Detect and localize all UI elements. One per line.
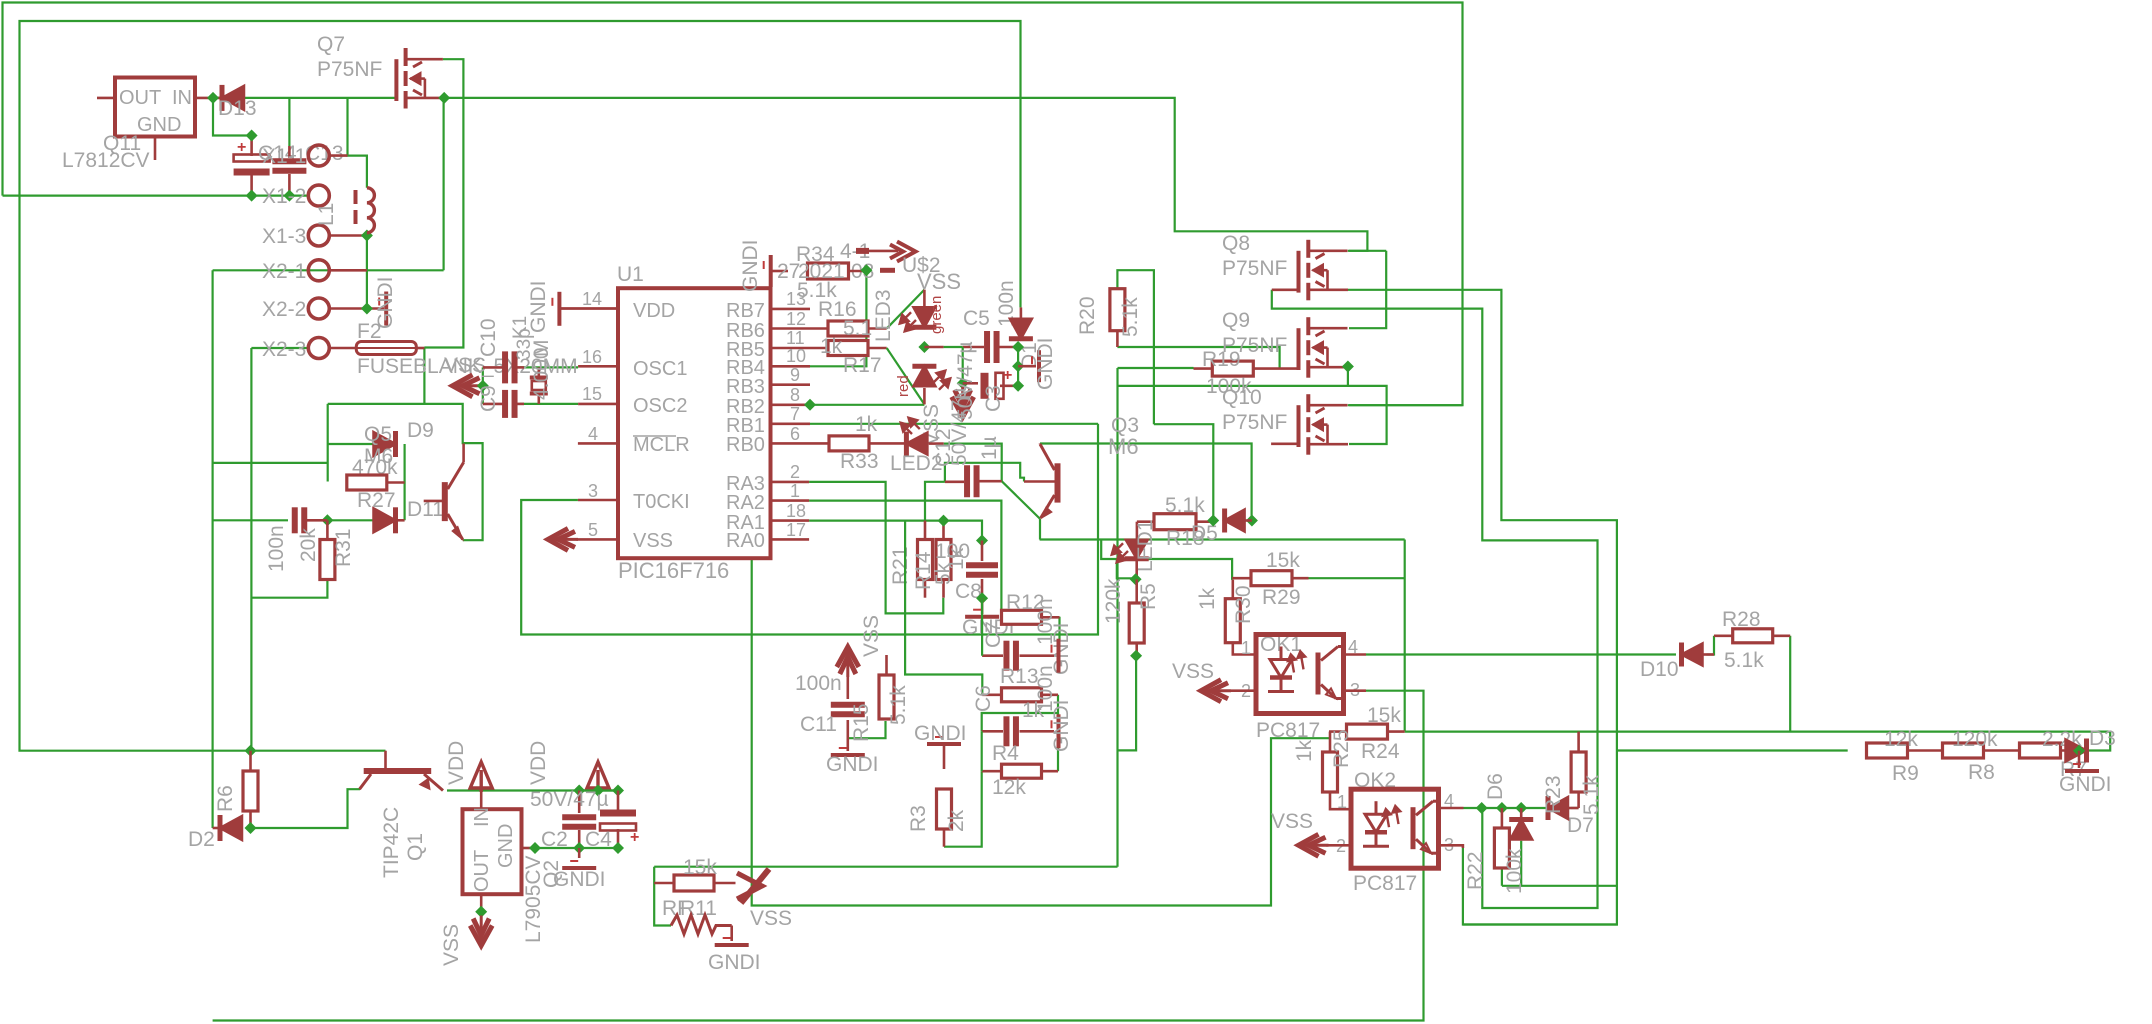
svg-text:+: + (237, 139, 246, 156)
transistor Q9 P75NF (1299, 317, 1349, 378)
wire C4 bottom lead (617, 829, 620, 848)
svg-text:X2-1: X2-1 (262, 260, 306, 283)
ground GNDI below R7 (2065, 769, 2099, 773)
wire R21 bottom lead (924, 579, 927, 598)
wire R27 right lead (387, 481, 405, 484)
svg-text:9: 9 (790, 365, 800, 385)
resistor R7 (2020, 743, 2061, 758)
wire R4 left riser (981, 731, 983, 771)
pin 4 stub (578, 442, 618, 445)
capacitor C7 (1003, 641, 1009, 671)
wire X2-1 lead (329, 269, 367, 272)
wire Q1 emitter to VDD (447, 789, 481, 791)
wire OK1 pin3 lead (1344, 689, 1367, 692)
svg-text:R20: R20 (1076, 296, 1099, 335)
junction D2 R6 (245, 822, 257, 834)
wire D9 left vertical (327, 404, 329, 482)
svg-text:1: 1 (1241, 638, 1251, 658)
wire D7 top lead (1520, 808, 1523, 817)
wire LED1 bottom jog (1117, 559, 1136, 578)
junction GND C4 (612, 842, 624, 854)
wire C12 right lead (980, 480, 1002, 483)
junction Q7 source (438, 92, 450, 104)
wire U1 VDD lead (559, 307, 618, 310)
wire X2-3 to bottom rail (250, 348, 252, 751)
svg-text:1k: 1k (1196, 587, 1219, 610)
resistor R4 (1002, 764, 1042, 778)
wire C13 bottom lead (288, 174, 291, 196)
wire C10 right lead (517, 366, 524, 369)
svg-text:5.1k: 5.1k (1119, 297, 1142, 337)
wire OK1 pin2 lead (1231, 689, 1256, 692)
wire diagonal to Q4 emitter (1002, 481, 1040, 518)
pin 2 stub (771, 481, 810, 484)
svg-text:15k: 15k (1367, 704, 1401, 727)
wire C11 bottom lead (846, 720, 849, 751)
svg-text:R11: R11 (680, 897, 717, 920)
svg-text:GNDI: GNDI (553, 868, 606, 891)
svg-text:VDD: VDD (445, 741, 468, 785)
svg-text:R30: R30 (1232, 585, 1255, 624)
wire X2-2 lead (329, 307, 384, 310)
svg-text:+: + (630, 829, 639, 846)
svg-text:120k: 120k (1952, 728, 1998, 751)
wire C8 top lead (981, 541, 984, 562)
wire OK1 pin4 net to D10 (1366, 653, 1676, 655)
pin 3 stub (578, 499, 618, 502)
svg-text:C4: C4 (585, 828, 612, 851)
svg-text:120k: 120k (1102, 578, 1125, 624)
supply VSS above C11 (837, 647, 859, 677)
wire R28 left lead (1714, 634, 1733, 637)
pin 10 stub (771, 365, 811, 368)
junction VDD C2 (573, 785, 585, 797)
resistor R19 (1212, 361, 1253, 376)
wire RA3 net (809, 482, 943, 614)
wire LED2 to C12 right (944, 444, 1002, 482)
svg-text:18: 18 (786, 501, 806, 521)
resistor R12 (1002, 610, 1042, 624)
svg-text:1k: 1k (1293, 739, 1316, 762)
wire R14 bottom lead (942, 579, 945, 598)
wire Q8-Q9 drain vertical (1349, 251, 1386, 328)
wire C12 left up (945, 463, 1024, 482)
svg-text:GNDI: GNDI (826, 753, 879, 776)
junction OK2 pin4 b (1496, 802, 1508, 814)
capacitor C6 (1003, 716, 1009, 746)
junction D13 anode (207, 92, 219, 104)
wire R4 right lead (1042, 770, 1059, 773)
svg-text:TIP42C: TIP42C (380, 807, 403, 878)
svg-text:50V/47µ: 50V/47µ (948, 387, 971, 466)
junction C14 top (246, 130, 258, 142)
svg-text:1: 1 (790, 481, 800, 501)
svg-text:20k: 20k (297, 528, 320, 562)
wire R19 left lead (1194, 367, 1213, 370)
svg-text:VSS: VSS (633, 530, 673, 552)
svg-text:R5: R5 (1137, 583, 1160, 610)
wire R9 sense line (1617, 749, 1848, 751)
svg-text:X1-1: X1-1 (262, 145, 306, 168)
resistor R29 (1251, 571, 1292, 586)
wire Q11 OUT stub (97, 97, 115, 100)
wire C30 to D11 (213, 519, 288, 521)
wire R5 bottom to Q9 source net (1118, 656, 1137, 751)
wire R31 bottom return (251, 581, 327, 598)
LED LED2 (906, 433, 927, 455)
wire R15 bottom link (847, 721, 886, 738)
svg-text:Q9: Q9 (1222, 309, 1250, 332)
svg-text:2: 2 (790, 462, 800, 482)
capacitor C14 (234, 155, 270, 162)
wire C9 right lead (517, 403, 524, 406)
svg-text:L1: L1 (315, 203, 338, 226)
supply VSS U1 pin5 (548, 528, 578, 550)
svg-text:50V/47µ: 50V/47µ (530, 788, 609, 811)
pin 12 stub (771, 327, 829, 330)
wire Q7 source drop (443, 98, 445, 270)
wire R21 link (925, 482, 945, 521)
potentiometer R11 wiper arrow (737, 869, 769, 903)
svg-text:2k: 2k (945, 809, 968, 832)
junction RA1 R14 (938, 515, 950, 527)
wire OK2 pin4 net (1464, 807, 1547, 809)
wire GND cap rail (535, 847, 618, 849)
wire fuse node down to D9 net (423, 348, 425, 404)
pad X1-3 (308, 225, 329, 246)
wire R19 right lead (1253, 367, 1298, 370)
svg-text:6: 6 (790, 424, 800, 444)
junction LED3 LED5 (918, 341, 930, 353)
svg-text:red: red (895, 375, 912, 397)
wire D9 top net (328, 404, 483, 540)
voltage regulator Q2 L7905CV (463, 809, 522, 894)
svg-text:5: 5 (588, 520, 598, 540)
ground GNDI right of C6 (1057, 714, 1061, 748)
svg-text:P75NF: P75NF (1222, 411, 1287, 434)
junction pin8 (804, 399, 816, 411)
wire OSC1 net (482, 367, 484, 385)
junction OK2 pin4 c (1515, 802, 1527, 814)
wire pot gnd lead (730, 926, 733, 942)
inductor L1 (356, 188, 375, 233)
svg-text:GNDI: GNDI (1034, 338, 1057, 391)
wire R24 left lead (1329, 730, 1347, 733)
resistor R14 (936, 540, 951, 580)
wire R3 bottom net (944, 771, 982, 847)
wire R23 bottom lead (1577, 792, 1580, 808)
diode D7 (1510, 820, 1532, 840)
wire D11 node (307, 519, 375, 521)
capacitor C11 (831, 702, 865, 708)
svg-text:F2: F2 (357, 320, 382, 343)
resistor R33 (829, 436, 869, 451)
wire OSC1 to U1 (520, 366, 578, 368)
fuse F2 (356, 342, 416, 355)
wire R12 right drop to GNDI (1058, 617, 1060, 641)
wire R13 right lead (1042, 693, 1059, 696)
wire R4 left lead (982, 770, 1002, 773)
svg-text:R28: R28 (1722, 608, 1761, 631)
supply VSS OK2 pin2 (1299, 834, 1329, 856)
pin 15 stub (578, 403, 618, 406)
wire D2 left lead (213, 827, 220, 830)
wire X2-1 rail (213, 269, 444, 271)
wire R13 left lead (982, 693, 1001, 696)
wire LED1 top lead (1135, 538, 1138, 541)
svg-text:R25: R25 (1330, 729, 1353, 768)
svg-text:R9: R9 (1892, 762, 1919, 785)
wire R28 right lead (1773, 634, 1791, 637)
ground GNDI below C8 (965, 615, 999, 619)
junction VSS C3 (957, 377, 969, 389)
supply VSS arrow right of R34 (856, 242, 916, 262)
junction R34 (860, 264, 872, 276)
resistor R28 (1733, 629, 1773, 643)
wire D10 anode lead (1703, 653, 1715, 656)
wire C13 top drop (288, 98, 290, 146)
svg-text:1µ: 1µ (978, 436, 1001, 460)
wire R6 top lead (249, 751, 252, 771)
junction R5 bottom (1130, 650, 1142, 662)
svg-text:M: M (530, 340, 553, 358)
wire R28 right drop (1789, 636, 1791, 731)
svg-text:R3: R3 (907, 805, 930, 832)
diode D9 (374, 432, 396, 456)
svg-text:RB0: RB0 (726, 434, 765, 456)
svg-text:RB3: RB3 (726, 376, 765, 398)
wire Q10 drain link (1348, 404, 1463, 406)
wire C8 gnd lead (981, 598, 984, 614)
svg-text:D2: D2 (188, 828, 215, 851)
junction X1-2 C13 (283, 190, 295, 202)
diode D11 (374, 508, 396, 532)
wire OK2 pin3 lead (1439, 845, 1463, 848)
wire R25 bottom lead (1330, 792, 1351, 809)
wire R4 right riser (1057, 713, 1059, 771)
svg-text:Q5: Q5 (364, 423, 392, 446)
svg-text:11: 11 (786, 328, 805, 348)
capacitor C30 (292, 507, 298, 533)
pin 9 stub (771, 383, 811, 386)
wire pot top rail (654, 866, 1117, 868)
wire diagonal R16 to LED3 (887, 290, 925, 329)
resistor R30 (1225, 599, 1240, 643)
wire R29 link (1309, 577, 1405, 579)
svg-text:R23: R23 (1542, 775, 1565, 814)
wire C7 right lead (1020, 654, 1055, 657)
svg-text:R24: R24 (1361, 740, 1400, 763)
junction D1 C5 (1012, 341, 1024, 353)
svg-text:VDD: VDD (527, 741, 550, 785)
wire GND rail to X1-2 (3, 195, 308, 197)
junction X2-2 GNDI (361, 303, 373, 315)
pin 13 stub (771, 308, 811, 311)
wire OSC2 net (482, 386, 484, 404)
wire R5 top lead (1135, 579, 1138, 603)
svg-text:D3: D3 (2089, 727, 2116, 750)
LED LED3 green (913, 307, 935, 327)
svg-text:16: 16 (582, 347, 602, 367)
svg-text:R21: R21 (889, 546, 912, 585)
wire Q11 GND stub (154, 136, 157, 160)
junction D1 GNDI (1012, 360, 1024, 372)
wire C4 top lead (617, 791, 620, 812)
wire R15 top lead (885, 655, 888, 675)
wire RA1 branch to R13 (905, 521, 982, 695)
supply VDD at Q1 (470, 762, 492, 792)
wire M6 gate rail (1154, 424, 1213, 520)
wire LED2 right lead (929, 442, 944, 445)
crystal K1 (530, 367, 548, 404)
wire RA1 net (809, 521, 982, 541)
svg-text:C10: C10 (477, 318, 500, 357)
svg-text:4: 4 (588, 424, 598, 444)
svg-text:D9: D9 (407, 419, 434, 442)
svg-text:5.1: 5.1 (843, 317, 872, 340)
wire C3 right lead (1000, 384, 1018, 387)
wire R6 bottom lead (249, 811, 252, 828)
LED LED1 (1126, 540, 1148, 559)
wire C2 bottom lead (578, 830, 581, 848)
svg-text:GND: GND (137, 114, 181, 136)
wire VSS drop at LED (962, 347, 964, 383)
pad X1-2 (308, 185, 329, 206)
ground GNDI below pot (715, 943, 749, 947)
transistor Q5 (424, 444, 464, 541)
wire R29 left lead (1232, 577, 1251, 580)
wire GND top border / right drop to Q10 drain (3, 3, 1463, 406)
resistor R25 (1323, 752, 1338, 792)
wire R18 left drop (1136, 522, 1139, 540)
svg-text:R22: R22 (1464, 851, 1487, 890)
pin 8 stub (771, 403, 811, 406)
svg-text:VDD: VDD (633, 300, 675, 322)
wire R11 left lead (654, 882, 674, 885)
svg-text:RB7: RB7 (726, 300, 765, 322)
svg-text:12k: 12k (992, 776, 1026, 799)
wire +12V D13 to Q7 gate (213, 97, 396, 99)
wire R18 right lead (1196, 520, 1213, 523)
wire R8-R7 link (1984, 749, 2020, 752)
wire R30 bottom lead (1233, 643, 1256, 655)
wire D1 C3 link (1017, 347, 1019, 386)
resistor R34 (808, 263, 849, 279)
transistor Q1 TIP42C (360, 751, 444, 791)
wire VSS stub right (880, 268, 895, 273)
wire Q4 collector rail (1040, 444, 1252, 521)
wire R16 right lead (868, 327, 887, 330)
svg-text:X2-2: X2-2 (262, 298, 306, 321)
svg-text:R13: R13 (1000, 665, 1039, 688)
svg-text:GNDI: GNDI (914, 722, 967, 745)
svg-text:PIC16F716: PIC16F716 (618, 558, 729, 583)
wire RA2 net (809, 501, 1001, 617)
optocoupler OK2 PC817 (1351, 789, 1439, 868)
svg-text:Q1: Q1 (404, 833, 427, 861)
svg-text:OUT: OUT (119, 87, 161, 109)
svg-text:C9: C9 (477, 385, 500, 412)
IC U1 PIC16F716 body (618, 288, 771, 558)
wire C2 top lead (578, 791, 581, 814)
resistor R5 (1129, 603, 1144, 643)
junction LED1 R5 (1130, 573, 1142, 585)
wire R13C6 mid net (982, 695, 1058, 732)
pin 11 stub (771, 347, 829, 350)
wire Q9 source dot drop (1347, 367, 1349, 386)
pin 16 stub (578, 365, 618, 368)
wire RB2 to LED pair (810, 404, 924, 406)
wire C11 top lead (846, 677, 849, 699)
wire D6 anode lead (1568, 807, 1579, 810)
ground GNDI right of D1 (1037, 350, 1041, 382)
wire D5 anode lead (1245, 519, 1252, 522)
wire RB1 drop to pot line (752, 424, 1329, 906)
wire VSS T0CKI net (521, 424, 1098, 635)
wire R21 top lead (924, 521, 927, 540)
capacitor C9 (502, 390, 508, 418)
resistor R6 (243, 771, 258, 811)
overline MCLR (633, 435, 676, 437)
svg-text:OSC2: OSC2 (633, 395, 687, 417)
svg-text:D13: D13 (218, 97, 257, 120)
svg-text:T0CKI: T0CKI (633, 491, 690, 513)
svg-text:1k: 1k (945, 547, 968, 570)
svg-text:3: 3 (588, 481, 598, 501)
capacitor C13 (272, 158, 306, 164)
wire R33 right lead (869, 442, 904, 445)
svg-text:15k: 15k (1266, 549, 1300, 572)
wire X1-1 lead (329, 154, 347, 157)
resistor R31 (320, 540, 335, 580)
diode D1 (1010, 319, 1032, 339)
svg-text:OSC1: OSC1 (633, 358, 687, 380)
svg-text:X2-3: X2-3 (262, 338, 306, 361)
resistor R11 15k (674, 875, 714, 891)
svg-text:C7: C7 (982, 621, 1005, 648)
svg-text:Q8: Q8 (1222, 232, 1250, 255)
resistor R27 (347, 475, 387, 490)
wire Q9 source vertical (1116, 368, 1118, 867)
wire R34 left lead (773, 270, 789, 273)
wire X1-2 lead (306, 194, 309, 197)
svg-text:5.1k: 5.1k (1580, 775, 1603, 815)
wire C8 bottom lead (981, 579, 984, 598)
svg-text:Q7: Q7 (317, 33, 345, 56)
svg-text:12k: 12k (1884, 728, 1918, 751)
resistor R8 (1943, 743, 1984, 758)
svg-text:C6: C6 (972, 685, 995, 712)
wire C13 leads (288, 146, 291, 158)
svg-text:PC817: PC817 (1256, 719, 1320, 742)
ground GNDI at U1 VDD (557, 292, 561, 326)
capacitor C4 (600, 810, 636, 817)
wire R30-R29 junction riser (1231, 578, 1233, 580)
wire C12 left lead (945, 480, 964, 483)
junction D5 left (1207, 515, 1219, 527)
potentiometer R11 element zigzag (671, 915, 732, 934)
svg-text:100n: 100n (795, 672, 842, 695)
wire D9 cathode vertical (404, 444, 406, 520)
pin 7 stub (771, 422, 811, 425)
wire link to X2-1 net (213, 462, 328, 464)
svg-text:10: 10 (786, 346, 806, 366)
svg-text:RA0: RA0 (726, 530, 765, 552)
junction C8 GNDI (976, 592, 988, 604)
svg-text:GNDI: GNDI (739, 240, 762, 293)
wire OK1 pin4 lead (1344, 653, 1367, 656)
transistor Q8 P75NF (1299, 240, 1349, 300)
